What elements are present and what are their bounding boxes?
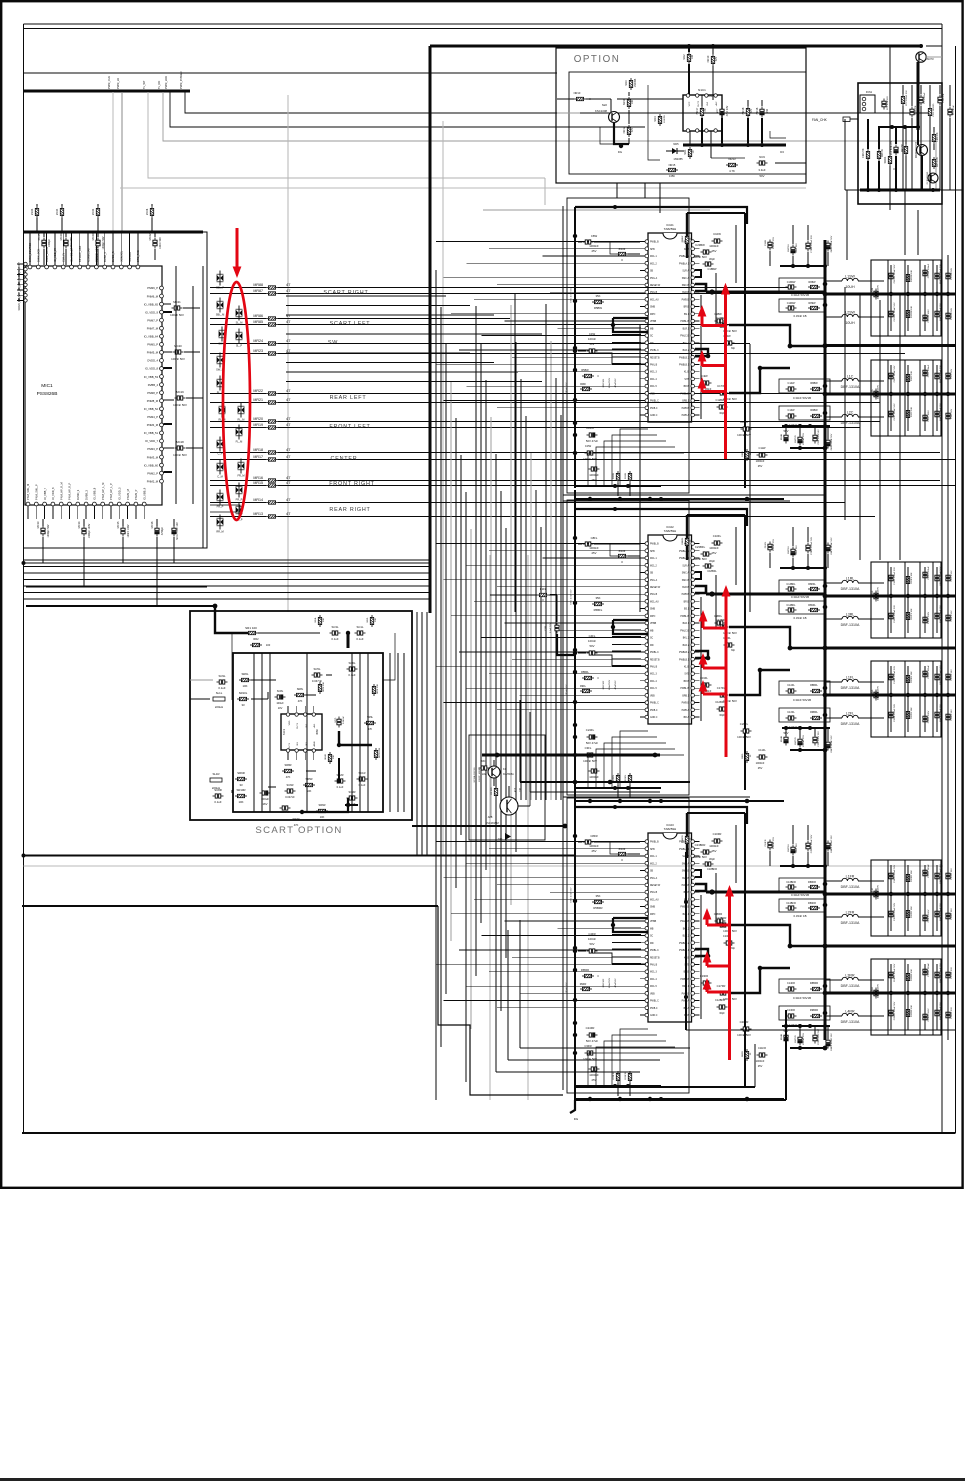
svg-text:47: 47 bbox=[286, 319, 291, 324]
component PR8 bbox=[938, 95, 942, 106]
transistor F2 KSC1815 bbox=[928, 173, 938, 183]
inductor L3RL bbox=[842, 616, 858, 619]
svg-text:1SS355: 1SS355 bbox=[673, 157, 683, 161]
svg-text:SC6R: SC6R bbox=[287, 783, 294, 787]
svg-text:C19FR: C19FR bbox=[765, 839, 767, 846]
capacitor NC9 3.3uF 50V bbox=[757, 161, 768, 165]
amp1 thick step wires bbox=[613, 317, 648, 319]
svg-text:222: 222 bbox=[482, 773, 487, 776]
svg-text:C15FR 100nF 50V: C15FR 100nF 50V bbox=[894, 902, 896, 921]
amplifier block 3 outer box bbox=[567, 798, 689, 1093]
svg-text:PWBL.B: PWBL.B bbox=[650, 544, 659, 546]
svg-text:R30W: R30W bbox=[613, 472, 615, 479]
svg-text:C18RR 50V: C18RR 50V bbox=[951, 1007, 953, 1019]
thick scart bottom extension y826 bbox=[412, 825, 565, 827]
EMI filter FL_M bbox=[236, 425, 243, 440]
filter block RL box bbox=[871, 661, 941, 737]
wire y210 gray bbox=[483, 209, 710, 211]
red annotation arrow down bbox=[236, 228, 239, 269]
svg-text:FC3 47uF16V: FC3 47uF16V bbox=[891, 140, 893, 155]
IC TA8259H pins bbox=[645, 840, 649, 844]
svg-text:SI2/I2C_AD: SI2/I2C_AD bbox=[18, 298, 21, 310]
svg-text:C18FR 50V: C18FR 50V bbox=[951, 908, 953, 920]
svg-text:BKL.2: BKL.2 bbox=[683, 638, 690, 640]
amp2 thick pin7-8 wires bbox=[695, 586, 706, 593]
filter RL caps upper bbox=[889, 672, 893, 683]
svg-text:VPBB: VPBB bbox=[650, 921, 657, 923]
svg-text:FR2 27K: FR2 27K bbox=[863, 148, 865, 158]
svg-text:IO_VDD_5: IO_VDD_5 bbox=[118, 487, 122, 500]
svg-text:C3W: C3W bbox=[585, 444, 592, 448]
svg-text:VPBB: VPBB bbox=[650, 321, 657, 323]
amp1 thick stair to mid rail bbox=[729, 325, 825, 346]
inductor L1FR bbox=[842, 878, 858, 881]
amp3 resistor RBBFR 10 bbox=[685, 834, 688, 846]
filter block C box bbox=[871, 360, 941, 436]
svg-text:IO_VBB_7: IO_VBB_7 bbox=[43, 487, 47, 500]
svg-text:R2 220: R2 220 bbox=[491, 787, 493, 795]
svg-text:25V: 25V bbox=[592, 551, 597, 555]
wire bundle gray verticals bbox=[416, 612, 418, 855]
svg-text:SCART RIGHT: SCART RIGHT bbox=[323, 290, 368, 296]
svg-text:PWBL.C: PWBL.C bbox=[650, 950, 659, 952]
diode ND4 1SS355 bbox=[658, 114, 661, 126]
filter FR caps lower bbox=[889, 909, 893, 920]
svg-text:MCL.3: MCL.3 bbox=[650, 372, 657, 374]
svg-text:PNM2_M: PNM2_M bbox=[147, 479, 159, 483]
red connector amp1 a bbox=[702, 324, 726, 327]
svg-text:PWBLB.2: PWBLB.2 bbox=[679, 652, 690, 654]
svg-text:C14W: C14W bbox=[788, 382, 796, 385]
resistor FR5 4.7K bbox=[932, 157, 935, 169]
svg-text:C15C 100nF 50V: C15C 100nF 50V bbox=[894, 403, 896, 420]
svg-text:RESET.B: RESET.B bbox=[650, 357, 660, 359]
svg-text:C12SW 100nF: C12SW 100nF bbox=[928, 263, 930, 278]
svg-text:C18FL 50V: C18FL 50V bbox=[951, 610, 953, 622]
svg-text:SMB: SMB bbox=[650, 907, 655, 909]
svg-text:100nF 50V: 100nF 50V bbox=[693, 255, 707, 259]
OPTION box outer bbox=[556, 48, 806, 183]
svg-text:C2FR 100V 50V: C2FR 100V 50V bbox=[818, 1028, 820, 1044]
filter RL cap C10 470P 100V bbox=[874, 690, 878, 701]
svg-text:33: 33 bbox=[241, 703, 245, 707]
svg-text:C15SW 100nF 50V: C15SW 100nF 50V bbox=[894, 302, 896, 321]
x847 vertical from fan block bbox=[846, 190, 848, 260]
svg-text:50V: 50V bbox=[760, 174, 765, 178]
svg-text:R102: R102 bbox=[619, 247, 626, 251]
left rail gap fill b bbox=[562, 790, 564, 841]
svg-text:50V: 50V bbox=[590, 342, 595, 346]
svg-text:C19FR: C19FR bbox=[700, 974, 708, 978]
svg-text:PNM_HP_R_P: PNM_HP_R_P bbox=[68, 482, 72, 500]
svg-text:50V 47uF: 50V 47uF bbox=[586, 1039, 598, 1043]
amp1 extra cap C19 bbox=[701, 381, 712, 385]
svg-text:EMC101: EMC101 bbox=[603, 378, 605, 387]
diode ND3 1SS355 bbox=[629, 78, 632, 90]
svg-text:TL_WT: TL_WT bbox=[142, 80, 146, 89]
svg-text:0.047nF: 0.047nF bbox=[312, 679, 323, 683]
svg-text:47K: 47K bbox=[298, 699, 303, 703]
amp1 bottom cluster bus bbox=[782, 425, 830, 427]
svg-text:MC18: MC18 bbox=[176, 440, 184, 444]
svg-text:1000nF 25V: 1000nF 25V bbox=[773, 837, 775, 849]
amp1 capacitor 1000pF 25V bbox=[589, 467, 600, 471]
amp2 cap C18 30pF bbox=[703, 564, 714, 568]
svg-text:MR14: MR14 bbox=[253, 498, 263, 502]
svg-text:470P[M] 100V: 470P[M] 100V bbox=[878, 686, 880, 700]
capacitor MC23 1000pF 50V bbox=[96, 238, 100, 249]
wire N22 emitter to DG bbox=[614, 123, 629, 144]
resistor FR3 56 bbox=[904, 144, 907, 156]
red small arrow amp1 c bbox=[701, 386, 704, 392]
svg-text:C16C 100V: C16C 100V bbox=[928, 410, 930, 422]
svg-text:PWBL.B: PWBL.B bbox=[680, 393, 689, 395]
svg-text:47: 47 bbox=[286, 313, 291, 318]
svg-text:SCK/SCL: SCK/SCL bbox=[120, 250, 124, 262]
svg-text:S1C1: S1C1 bbox=[282, 728, 286, 735]
svg-text:C16RR 100V: C16RR 100V bbox=[928, 1008, 930, 1021]
amp2 inner rail thin bbox=[562, 508, 564, 792]
svg-text:BLR.2: BLR.2 bbox=[683, 350, 690, 352]
MIC1 top pin row bbox=[28, 265, 32, 269]
svg-text:EM4B: EM4B bbox=[781, 1033, 783, 1039]
svg-text:KSC1008: KSC1008 bbox=[595, 109, 607, 113]
svg-text:BR.B: BR.B bbox=[684, 681, 690, 683]
thick collector wire bbox=[917, 62, 920, 130]
svg-text:DBW 680uF 50V: DBW 680uF 50V bbox=[831, 433, 833, 450]
filter SW junction dots bbox=[874, 292, 878, 296]
amp2 top right cluster bbox=[768, 542, 772, 553]
red small arrow amp3 b bbox=[706, 960, 709, 966]
svg-text:100nF 50V: 100nF 50V bbox=[737, 1033, 751, 1037]
svg-text:20K: 20K bbox=[375, 618, 377, 622]
resistor R2 220 bbox=[494, 786, 497, 798]
svg-text:MD: MD bbox=[650, 343, 654, 345]
svg-text:MC32: MC32 bbox=[92, 208, 95, 215]
mid thick wires between amp2 and amp3 bbox=[520, 781, 690, 783]
svg-text:100: 100 bbox=[691, 54, 694, 59]
svg-text:R5BW: R5BW bbox=[581, 369, 589, 372]
amp1 thin verticals near IC right bbox=[735, 225, 737, 283]
svg-text:PWM_CLK: PWM_CLK bbox=[107, 76, 111, 89]
svg-text:C23BW: C23BW bbox=[695, 243, 705, 247]
left small components above MIC bbox=[35, 206, 38, 218]
capacitor MC16 4700pF bbox=[155, 526, 159, 537]
red annotation main arrow amp3 bbox=[728, 896, 731, 1060]
svg-text:NR10: NR10 bbox=[574, 91, 581, 95]
svg-text:C13BFR: C13BFR bbox=[786, 881, 796, 884]
svg-text:C10FL: C10FL bbox=[713, 534, 722, 538]
filter RR junction dots bbox=[874, 991, 878, 995]
capacitor MC21 100nF 50V bbox=[172, 306, 183, 310]
svg-text:R8BW: R8BW bbox=[810, 382, 818, 385]
filter RR caps upper bbox=[889, 970, 893, 981]
amp1 bottom cluster caps bbox=[784, 433, 788, 444]
MIC sub-box bbox=[24, 232, 208, 548]
svg-text:C15RL 100nF 50V: C15RL 100nF 50V bbox=[894, 703, 896, 722]
amp2 left feeder stubs bbox=[612, 629, 641, 631]
svg-text:SR2L: SR2L bbox=[367, 616, 369, 622]
svg-text:RESET.W: RESET.W bbox=[650, 885, 661, 887]
svg-text:EMC20: EMC20 bbox=[795, 435, 797, 443]
svg-text:10K: 10K bbox=[307, 789, 312, 793]
amp3 bottom second bus bbox=[790, 1047, 825, 1049]
svg-text:MR21: MR21 bbox=[253, 398, 263, 402]
amp2 left rail dots bbox=[573, 536, 577, 540]
IC TA8259H body bbox=[648, 233, 692, 422]
svg-text:100nF 50V: 100nF 50V bbox=[737, 735, 751, 739]
amp3 L-wires pins bbox=[695, 870, 701, 877]
svg-text:35K: 35K bbox=[596, 894, 601, 898]
svg-text:PNM7_M: PNM7_M bbox=[147, 326, 159, 330]
svg-text:R89FL: R89FL bbox=[808, 604, 816, 607]
filter FR caps upper bbox=[889, 871, 893, 882]
svg-text:SYB: SYB bbox=[684, 379, 689, 381]
amp2 cap C10 30p bbox=[724, 643, 735, 647]
svg-text:R5BFR: R5BFR bbox=[593, 906, 602, 910]
svg-text:EMC19: EMC19 bbox=[788, 244, 790, 252]
diode D10 bbox=[505, 833, 511, 840]
svg-text:PWL.A: PWL.A bbox=[650, 277, 658, 280]
svg-text:470P[M] 100V: 470P[M] 100V bbox=[878, 885, 880, 899]
svg-text:PNM6_P: PNM6_P bbox=[147, 286, 158, 290]
svg-text:DG: DG bbox=[618, 150, 622, 154]
capacitor MC15 100nF 100V bbox=[121, 526, 125, 537]
svg-text:PWL.B: PWL.B bbox=[650, 892, 658, 894]
amp2 L-wires pins bbox=[695, 572, 701, 579]
svg-text:PC1 100nF: PC1 100nF bbox=[924, 92, 926, 104]
capacitor MC18 100nF 50V bbox=[175, 446, 186, 450]
amp1 top right cluster bbox=[768, 240, 772, 251]
filter FL cap C10 470P 100V bbox=[874, 591, 878, 602]
svg-text:PNM5_M: PNM5_M bbox=[147, 351, 159, 355]
svg-text:FAN_CHK: FAN_CHK bbox=[812, 118, 828, 122]
svg-text:C4W: C4W bbox=[589, 332, 596, 336]
svg-text:BLR.B: BLR.B bbox=[682, 292, 689, 294]
component PC3 bbox=[948, 107, 952, 118]
svg-text:R88FR: R88FR bbox=[808, 881, 816, 884]
svg-text:PWM_POWER: PWM_POWER bbox=[179, 71, 183, 89]
svg-text:PWBLB.2: PWBLB.2 bbox=[679, 943, 690, 945]
svg-text:MC34: MC34 bbox=[56, 208, 59, 215]
svg-text:R9BW: R9BW bbox=[810, 409, 818, 412]
thick rail y645 bbox=[825, 647, 956, 650]
svg-text:PC2 100nF 50V: PC2 100nF 50V bbox=[906, 90, 908, 106]
amp3 top cluster bus bbox=[780, 865, 825, 867]
svg-text:47: 47 bbox=[286, 497, 291, 502]
MIC left pin column bbox=[24, 262, 27, 265]
svg-text:C7BFL 100nF 50V: C7BFL 100nF 50V bbox=[811, 536, 813, 555]
svg-text:TL_RD: TL_RD bbox=[157, 81, 161, 89]
svg-text:PWB.B: PWB.B bbox=[682, 703, 690, 705]
cluster wires bbox=[493, 760, 495, 766]
svg-text:C2FL 100V 50V: C2FL 100V 50V bbox=[818, 731, 820, 747]
svg-text:RESET.B: RESET.B bbox=[650, 957, 660, 959]
svg-text:PWBL.C: PWBL.C bbox=[650, 1001, 659, 1003]
svg-text:47: 47 bbox=[286, 282, 291, 287]
wire y73 bbox=[24, 72, 558, 74]
filter block SW box bbox=[871, 260, 941, 336]
svg-text:NR1: NR1 bbox=[683, 149, 687, 155]
horizontal feeder wires upper bbox=[286, 295, 446, 297]
amp2 RC box row2 0.33nF 1B bbox=[779, 601, 826, 614]
filter RR cap C10 470P 100V bbox=[874, 988, 878, 999]
svg-text:L3RR: L3RR bbox=[845, 974, 855, 978]
svg-text:C18BW: C18BW bbox=[708, 267, 717, 271]
svg-text:SMC.A: SMC.A bbox=[682, 572, 690, 575]
svg-text:10K: 10K bbox=[243, 684, 248, 688]
scart internal thin wires bbox=[190, 679, 213, 681]
svg-text:PNM2_P: PNM2_P bbox=[147, 471, 158, 475]
EMI filter RR_M bbox=[217, 515, 224, 530]
svg-text:PD5 1SS355: PD5 1SS355 bbox=[933, 103, 935, 116]
svg-text:R5BFL: R5BFL bbox=[594, 608, 603, 612]
svg-text:C10C: C10C bbox=[872, 389, 874, 395]
svg-text:25V: 25V bbox=[758, 1064, 763, 1068]
svg-text:680uF 50V: 680uF 50V bbox=[566, 982, 568, 993]
svg-text:PWB.C: PWB.C bbox=[650, 710, 658, 712]
svg-text:SCART LEFT: SCART LEFT bbox=[330, 321, 371, 327]
connector FCN1 bbox=[860, 95, 875, 113]
svg-text:100nF 50V: 100nF 50V bbox=[70, 237, 73, 249]
svg-text:30pF: 30pF bbox=[709, 257, 715, 261]
svg-text:SLR.A: SLR.A bbox=[682, 270, 689, 273]
amp3 capacitor 1000pF 25V bbox=[589, 1067, 600, 1071]
EMI filter SL_M bbox=[236, 306, 243, 321]
svg-text:TA8259H: TA8259H bbox=[664, 529, 676, 533]
IC TA8259H body bbox=[648, 833, 692, 1022]
svg-text:47: 47 bbox=[286, 338, 291, 343]
wire PWM_CLK gray vertical bbox=[112, 92, 114, 232]
resistor FR2 27K bbox=[866, 149, 869, 161]
svg-text:PWB.B: PWB.B bbox=[682, 594, 690, 596]
EMI filter C_P bbox=[217, 437, 224, 452]
filter FL thick mid bus bbox=[825, 595, 956, 598]
svg-text:DBF-1310A: DBF-1310A bbox=[841, 686, 860, 690]
svg-text:1000pF 100V: 1000pF 100V bbox=[88, 523, 91, 538]
thick bottom wire scart bbox=[231, 790, 233, 793]
IC TA8259H pins bbox=[645, 542, 649, 546]
resistor NR10 47K bbox=[711, 54, 714, 66]
svg-text:SC3L: SC3L bbox=[332, 625, 339, 629]
red small arrow amp2 a bbox=[702, 619, 705, 628]
svg-text:PWBLB.1: PWBLB.1 bbox=[679, 659, 690, 661]
IC MIC1 PSS826B body bbox=[25, 266, 162, 505]
amp3 cap C12 30pF bbox=[717, 1005, 728, 1009]
svg-text:47uF 50V: 47uF 50V bbox=[796, 243, 798, 253]
svg-text:SPB: SPB bbox=[650, 849, 655, 851]
svg-text:1000nF: 1000nF bbox=[756, 1059, 765, 1063]
svg-text:MC16: MC16 bbox=[150, 521, 154, 528]
filter block RR box bbox=[871, 959, 941, 1035]
svg-text:47K: 47K bbox=[294, 823, 299, 827]
svg-text:25V: 25V bbox=[758, 766, 763, 770]
svg-text:1000nF 25V: 1000nF 25V bbox=[803, 1033, 805, 1045]
diode ND5 1SS355 bbox=[672, 148, 677, 154]
svg-text:DBF-1310A: DBF-1310A bbox=[841, 984, 860, 988]
svg-text:1000nF: 1000nF bbox=[589, 244, 599, 248]
svg-text:PNM4_P: PNM4_P bbox=[147, 415, 158, 419]
svg-text:470P[M] 100V: 470P[M] 100V bbox=[878, 385, 880, 399]
svg-text:VBB: VBB bbox=[650, 393, 655, 395]
filter RL thick mid bus bbox=[825, 694, 956, 697]
svg-text:DBFL 680uF 50V: DBFL 680uF 50V bbox=[831, 735, 833, 752]
amp2 bottom cluster bus bbox=[782, 727, 830, 729]
svg-text:MPO: MPO bbox=[650, 616, 655, 618]
resistor NR16 150 bbox=[760, 107, 764, 118]
resistor NR17 4.7K bbox=[700, 106, 703, 118]
svg-text:SC7L: SC7L bbox=[335, 716, 337, 722]
svg-text:R9FR: R9FR bbox=[580, 983, 587, 986]
svg-text:EMC102: EMC102 bbox=[603, 680, 605, 689]
amp1 RC box row3 bbox=[779, 379, 830, 393]
capacitor NC7 47uF 20V bbox=[720, 107, 724, 118]
svg-text:C10FL: C10FL bbox=[872, 590, 874, 598]
amp3 extra bus dots bbox=[588, 1097, 592, 1101]
sub-circuit box K1 bbox=[469, 735, 545, 840]
svg-text:PNM_SML_M: PNM_SML_M bbox=[26, 484, 30, 500]
svg-text:PWL.B: PWL.B bbox=[650, 965, 658, 967]
svg-text:PWBL.B: PWBL.B bbox=[680, 907, 689, 909]
inductor L1SW bbox=[842, 278, 858, 281]
amp2 thick right gamma x687 bbox=[686, 515, 688, 560]
svg-text:47uF50V: 47uF50V bbox=[615, 978, 617, 987]
svg-text:FR5 4.7K: FR5 4.7K bbox=[937, 157, 939, 167]
svg-text:D10: D10 bbox=[498, 838, 503, 841]
bottom-left big rect top edge bbox=[22, 905, 438, 907]
svg-text:OUT2: OUT2 bbox=[698, 100, 700, 107]
svg-text:47uF50V: 47uF50V bbox=[615, 378, 617, 387]
svg-text:BP1/I2C_AD0: BP1/I2C_AD0 bbox=[78, 245, 82, 262]
thick feed into scart bbox=[215, 606, 248, 633]
svg-text:R89FR: R89FR bbox=[808, 902, 816, 905]
amp3 RC box row2 0.33nF 1B bbox=[779, 899, 826, 912]
thick bottom bus amp3 b bbox=[575, 1099, 786, 1101]
svg-text:NC7: NC7 bbox=[715, 108, 719, 114]
svg-text:1000nF 25V: 1000nF 25V bbox=[803, 735, 805, 747]
svg-text:CLK_IN: CLK_IN bbox=[61, 253, 65, 262]
svg-text:0.1nF 50V: 0.1nF 50V bbox=[550, 622, 552, 633]
svg-text:100nF 50V: 100nF 50V bbox=[170, 313, 184, 317]
svg-text:100uF: 100uF bbox=[276, 701, 284, 705]
svg-text:RESET.W: RESET.W bbox=[650, 587, 661, 589]
svg-text:MC23: MC23 bbox=[91, 233, 95, 240]
svg-text:MC25: MC25 bbox=[37, 233, 41, 240]
svg-text:47: 47 bbox=[286, 416, 291, 421]
amp3 left feeder stubs bbox=[612, 927, 641, 929]
IC TA8259H body bbox=[648, 535, 692, 724]
svg-text:R30FL: R30FL bbox=[613, 774, 615, 781]
svg-text:BLR.1: BLR.1 bbox=[683, 328, 690, 330]
svg-text:NR12: NR12 bbox=[622, 126, 626, 133]
wire to right frame bbox=[926, 45, 942, 47]
red annotation main arrow amp2 bbox=[725, 596, 728, 757]
amp2 resistor RBBFL 10 bbox=[685, 536, 688, 548]
svg-text:50V: 50V bbox=[590, 644, 595, 648]
amp3 inner rail thin bbox=[562, 806, 564, 1090]
svg-text:BKL.2: BKL.2 bbox=[683, 343, 690, 345]
inductor L2FL bbox=[842, 715, 858, 718]
svg-text:0.047nF: 0.047nF bbox=[285, 795, 295, 799]
svg-text:VDD: VDD bbox=[289, 720, 291, 725]
svg-text:SL1R: SL1R bbox=[213, 772, 220, 776]
svg-text:DVBB_4: DVBB_4 bbox=[148, 383, 159, 387]
svg-text:C14BFL: C14BFL bbox=[786, 604, 796, 607]
svg-text:PWB.A: PWB.A bbox=[682, 414, 690, 417]
svg-text:IO_VBB_64: IO_VBB_64 bbox=[144, 335, 159, 339]
svg-text:C11SW 100nF 50V: C11SW 100nF 50V bbox=[894, 264, 896, 283]
amp2 thick stair to mid rail bbox=[729, 627, 825, 648]
